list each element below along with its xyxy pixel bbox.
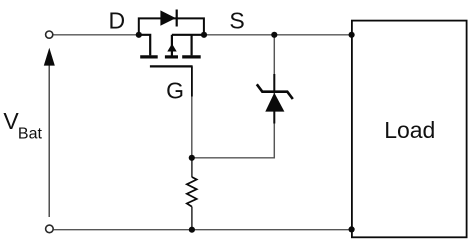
svg-text:S: S [229,8,244,34]
wire bottom rail [54,229,352,231]
wire top rail right segment (S node to Load) [204,34,352,36]
body diode loop wiring [139,18,204,34]
mosfet Q1 source lead [172,34,204,36]
terminal circle top [46,31,53,38]
wire top rail left segment [53,34,139,36]
svg-text:Load: Load [384,117,435,143]
zener diode Z1 triangle [265,93,284,112]
mosfet Q1 body lead with arrow [167,35,176,57]
junction dot resistor bottom [189,227,195,233]
resistor R1 bottom lead [191,207,193,230]
wire zener branch vertical [273,35,275,159]
svg-text:Bat: Bat [18,125,43,142]
svg-text:D: D [109,8,126,34]
svg-text:G: G [166,78,184,104]
junction dot load bottom [349,226,355,232]
junction dot gate node [189,155,195,161]
mosfet Q1 source vertical [191,35,193,56]
body diode D1 triangle [160,10,175,25]
terminal circle bottom [46,225,54,233]
zener diode Z1 lower lead [273,111,275,124]
wire gate vertical [191,66,193,157]
wire node to zener horizontal [192,157,275,159]
mosfet Q1 gate plate [150,65,193,67]
junction dot zener tap [271,32,277,38]
mosfet Q1 gate lead [191,66,193,96]
junction dot load top [349,32,355,38]
zener diode Z1 cathode bar with bent ends [257,84,293,99]
mosfet Q1 drain contact bar [140,55,158,58]
resistor R1 zigzag [187,177,197,207]
body diode D1 cathode bar [176,10,178,27]
resistor R1 top lead [191,158,193,177]
mosfet Q1 drain lead [139,35,150,56]
load box [352,21,467,238]
zener diode Z1 upper lead [273,74,275,91]
mosfet Q1 body contact bar [165,55,178,58]
voltage arrow VBat [44,48,55,217]
mosfet Q1 source contact bar [182,55,201,58]
junction dot node D [136,32,142,38]
junction dot node S [201,32,207,38]
